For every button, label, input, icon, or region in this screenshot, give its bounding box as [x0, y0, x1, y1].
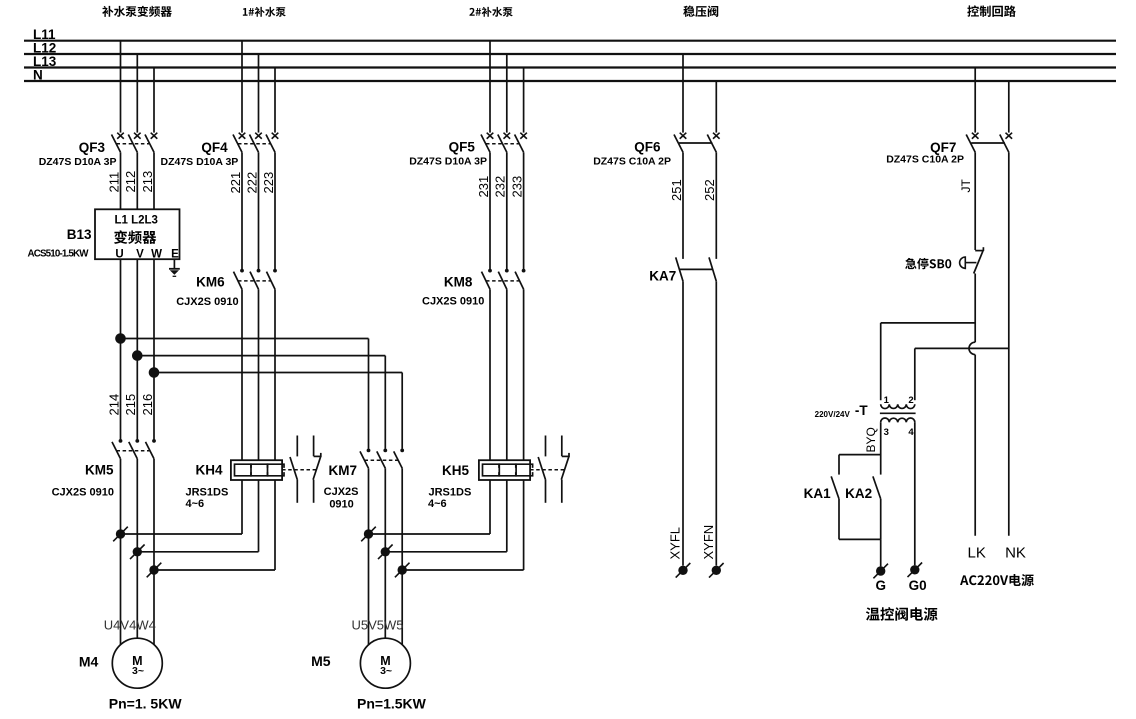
- wire KH4 output 1 to M4 feed: [121, 533, 243, 535]
- svg-text:N: N: [33, 68, 43, 83]
- contactor KM7 pole 3: [394, 449, 404, 469]
- KM7 mechanical link: [365, 459, 399, 461]
- header 稳压阀: [683, 6, 718, 17]
- relay contact KA1: [831, 476, 839, 499]
- wire W5 to motor: [401, 570, 403, 645]
- svg-text:DZ47S D10A 3P: DZ47S D10A 3P: [160, 156, 238, 168]
- svg-text:2: 2: [908, 395, 913, 406]
- header 补水泵变频器: [102, 6, 172, 17]
- wire QF7 pole 2 to NK: [1008, 152, 1010, 535]
- svg-text:233: 233: [509, 176, 524, 198]
- wire SB0 to branch node: [974, 274, 976, 343]
- wire to terminal G: [880, 539, 882, 566]
- svg-text:U4V4W4: U4V4W4: [104, 618, 156, 633]
- svg-text:XYFN: XYFN: [701, 525, 716, 560]
- KM8 mechanical link: [486, 280, 520, 282]
- wire QF3 pole 2 to VFD: [136, 152, 138, 209]
- svg-text:222: 222: [244, 172, 259, 194]
- wire bus tap to QF7 pole 1: [974, 68, 976, 133]
- transformer secondary coil: [881, 418, 915, 422]
- circuit breaker QF5 pole 2: [498, 133, 510, 153]
- QF3 mechanical link: [117, 143, 151, 145]
- power bus N: [24, 80, 1116, 82]
- wire KH5 output 3 down: [523, 480, 525, 570]
- wire KH4 output 3 down: [274, 480, 276, 570]
- svg-text:E: E: [171, 248, 179, 260]
- wire KA2 leg bottom: [880, 499, 882, 540]
- wire KH5 output 1 to M5 feed: [369, 533, 491, 535]
- KH5 heater element 2: [499, 464, 516, 476]
- circuit breaker QF3 pole 3: [145, 133, 157, 153]
- wire KM5 pole 1 to motor node: [120, 459, 122, 534]
- wire QF6 pole 2 to KA7: [715, 152, 717, 259]
- svg-text:220V/24V: 220V/24V: [815, 410, 851, 419]
- wire W branch to KM7: [154, 372, 402, 374]
- svg-text:KM7: KM7: [328, 463, 357, 478]
- circuit breaker QF5 pole 3: [515, 133, 527, 153]
- KH5 aux NC contact: [561, 436, 569, 503]
- wire bus tap to QF3 pole 3: [153, 68, 155, 133]
- thermal relay KH4 box: [231, 460, 282, 480]
- terminal node M5 phase 3: [395, 563, 410, 578]
- wire pin4 to terminal G0: [914, 422, 916, 565]
- wire KH5 output 3 to M5 feed: [402, 569, 523, 571]
- wire U5 to motor: [368, 534, 370, 645]
- wire KM6 pole 3 to KH4: [274, 289, 276, 460]
- wire KM5 pole 3 to motor node: [153, 459, 155, 570]
- wire QF7 pole 1 to SB0: [974, 152, 976, 250]
- wire VFD V output: [136, 259, 138, 439]
- svg-text:U: U: [115, 248, 123, 260]
- wire VFD E to ground: [173, 259, 175, 268]
- terminal G0: [908, 563, 923, 578]
- svg-text:DZ47S C10A 2P: DZ47S C10A 2P: [886, 154, 964, 166]
- wire W4 to motor: [153, 570, 155, 645]
- wire KM7 pole 1 to motor node: [368, 468, 370, 534]
- svg-text:B13: B13: [67, 227, 92, 242]
- svg-text:V: V: [136, 248, 144, 260]
- svg-text:211: 211: [106, 172, 121, 193]
- transformer primary coil: [881, 404, 915, 408]
- svg-text:G0: G0: [909, 578, 927, 593]
- svg-text:221: 221: [228, 172, 243, 194]
- wire KH4 output 1 down: [241, 480, 243, 534]
- wire KH4 output 2 down: [258, 480, 260, 552]
- wire QF4 pole 1 to KM6: [241, 152, 243, 269]
- svg-text:QF3: QF3: [79, 140, 106, 155]
- label AC220V电源: [960, 574, 1034, 586]
- KM5 mechanical link: [117, 450, 151, 452]
- svg-text:U5V5W5: U5V5W5: [352, 618, 404, 633]
- svg-text:KM6: KM6: [196, 275, 225, 290]
- contactor KM7 pole 1: [360, 449, 370, 469]
- svg-text:KA1: KA1: [804, 486, 831, 501]
- circuit breaker QF6 pole 2: [707, 133, 719, 153]
- header 2#补水泵: [469, 7, 512, 17]
- wire KA1 leg top: [838, 455, 840, 475]
- contactor KM6 pole 1: [234, 269, 244, 290]
- motor M5: [360, 638, 410, 688]
- relay contact KA2: [873, 476, 881, 499]
- terminal node M4 phase 3: [147, 563, 162, 578]
- svg-text:Pn=1.5KW: Pn=1.5KW: [357, 696, 427, 712]
- contactor KM8 pole 3: [515, 269, 525, 290]
- svg-text:CJX2S 0910: CJX2S 0910: [52, 487, 114, 499]
- KH4 heater element 3: [268, 464, 285, 476]
- wire QF3 pole 1 to VFD: [120, 152, 122, 209]
- wire KA7 pole 2 to XYFN: [715, 281, 717, 565]
- svg-text:CJX2S 0910: CJX2S 0910: [422, 295, 484, 307]
- wire L branch to transformer pin 1: [881, 323, 976, 400]
- wire bus tap to QF6 pole 2: [715, 81, 717, 133]
- circuit breaker QF4 pole 1: [233, 133, 245, 153]
- emergency stop button SB0: [960, 247, 984, 273]
- wire V branch to KM7: [137, 355, 385, 357]
- wire U4 to motor: [120, 534, 122, 645]
- KH4 aux NC contact: [313, 436, 321, 503]
- svg-text:NK: NK: [1005, 545, 1026, 562]
- svg-text:M4: M4: [79, 654, 99, 670]
- terminal node M5 phase 1: [361, 527, 376, 542]
- VFD box B13: [95, 209, 180, 259]
- wire KM6 pole 1 to KH4: [241, 289, 243, 460]
- wire VFD W output: [153, 259, 155, 439]
- svg-text:214: 214: [106, 394, 121, 416]
- svg-text:JRS1DS: JRS1DS: [429, 486, 472, 498]
- circuit breaker QF7 pole 1: [966, 133, 978, 153]
- wire QF5 pole 3 to KM8: [523, 152, 525, 269]
- svg-text:QF4: QF4: [201, 140, 228, 155]
- KH4 aux NO contact: [290, 436, 297, 503]
- wire bus tap to QF5 pole 1: [489, 41, 491, 133]
- svg-text:216: 216: [140, 394, 155, 416]
- svg-text:3~: 3~: [132, 665, 144, 677]
- QF6 mechanical link: [679, 142, 712, 144]
- power bus L13: [24, 66, 1116, 68]
- power bus L11: [24, 40, 1116, 42]
- wire pin3 down: [880, 422, 882, 474]
- terminal node M4 phase 1: [113, 527, 128, 542]
- wire KM7 pole 3 to motor node: [401, 468, 403, 570]
- wire KH5 output 1 down: [489, 480, 491, 534]
- circuit breaker QF7 pole 2: [1000, 133, 1012, 153]
- wire bus tap to QF5 pole 3: [523, 68, 525, 133]
- wire U branch to KM7: [121, 338, 369, 340]
- QF5 mechanical link: [486, 143, 520, 145]
- svg-text:KM5: KM5: [85, 463, 114, 478]
- svg-text:DZ47S D10A 3P: DZ47S D10A 3P: [409, 155, 487, 167]
- contactor KM8 pole 1: [482, 269, 492, 290]
- wire bus tap to QF4 pole 2: [258, 54, 260, 133]
- svg-text:1: 1: [884, 395, 890, 406]
- node V branch: [132, 350, 143, 361]
- wire branch node to LK: [974, 355, 976, 536]
- wire KM8 pole 2 to KH5: [506, 289, 508, 460]
- wire KH5 output 2 to M5 feed: [385, 551, 507, 553]
- wire KM7 feed 3: [401, 373, 403, 449]
- VFD name 变频器: [114, 230, 156, 244]
- svg-text:KH4: KH4: [195, 463, 222, 478]
- wire KM5 pole 2 to motor node: [136, 459, 138, 552]
- wire N branch to transformer pin 2: [915, 348, 1009, 400]
- power bus L12: [24, 53, 1116, 55]
- svg-text:Pn=1. 5KW: Pn=1. 5KW: [109, 696, 183, 712]
- wire KA7 pole 1 to XYFL: [682, 281, 684, 565]
- svg-text:4~6: 4~6: [428, 498, 447, 510]
- KH5 aux NO contact: [538, 436, 545, 503]
- svg-text:4: 4: [908, 427, 914, 438]
- circuit breaker QF5 pole 1: [481, 133, 493, 153]
- svg-text:KM8: KM8: [444, 275, 473, 290]
- svg-text:KH5: KH5: [442, 463, 469, 478]
- wire QF6 pole 1 to KA7: [682, 152, 684, 259]
- terminal G: [873, 564, 888, 579]
- transformer core: [880, 412, 916, 414]
- svg-text:DZ47S C10A 2P: DZ47S C10A 2P: [593, 155, 671, 167]
- circuit breaker QF6 pole 1: [674, 133, 686, 153]
- header 1#补水泵: [243, 7, 286, 17]
- wire KM8 pole 3 to KH5: [523, 289, 525, 460]
- svg-text:232: 232: [493, 176, 508, 198]
- svg-text:W: W: [151, 248, 162, 260]
- motor M4: [112, 638, 162, 688]
- circuit breaker QF3 pole 1: [112, 133, 124, 153]
- svg-text:CJX2S: CJX2S: [324, 486, 359, 498]
- svg-text:KA7: KA7: [649, 269, 676, 284]
- KH5 trip link: [530, 469, 566, 471]
- wire bus tap to QF7 pole 2: [1008, 81, 1010, 133]
- svg-text:223: 223: [261, 172, 276, 194]
- svg-text:215: 215: [123, 394, 138, 416]
- contactor KM8 pole 2: [498, 269, 508, 290]
- svg-text:XYFL: XYFL: [668, 527, 683, 560]
- wire KM7 pole 2 to motor node: [384, 468, 386, 552]
- contactor KM5 pole 2: [129, 439, 139, 459]
- QF7 mechanical link: [971, 142, 1005, 144]
- svg-text:G: G: [875, 578, 886, 593]
- wire KH4 output 3 to M4 feed: [154, 569, 275, 571]
- wire KH4 output 2 to M4 feed: [137, 551, 258, 553]
- svg-text:LK: LK: [968, 545, 986, 562]
- header 控制回路: [967, 5, 1016, 17]
- wire V5 to motor: [384, 552, 386, 638]
- svg-text:3~: 3~: [380, 665, 392, 677]
- wire QF5 pole 2 to KM8: [506, 152, 508, 269]
- wire QF4 pole 2 to KM6: [258, 152, 260, 269]
- terminal XYFN: [709, 563, 724, 578]
- QF4 mechanical link: [238, 143, 271, 145]
- wire hop over N branch: [969, 342, 975, 354]
- relay contact KA7 pole 1: [676, 257, 683, 281]
- svg-text:251: 251: [669, 179, 684, 201]
- KA7 mechanical link: [679, 268, 712, 270]
- KM6 mechanical link: [238, 280, 271, 282]
- contactor KM6 pole 2: [250, 269, 260, 290]
- thermal relay KH5 box: [479, 460, 530, 480]
- wire QF4 pole 3 to KM6: [274, 152, 276, 269]
- ground symbol: [169, 269, 180, 277]
- wire KA branch top: [839, 454, 881, 456]
- circuit breaker QF3 pole 2: [128, 133, 140, 153]
- svg-text:DZ47S D10A 3P: DZ47S D10A 3P: [39, 156, 117, 168]
- KH5 heater element 1: [483, 464, 500, 476]
- wire KM8 pole 1 to KH5: [489, 289, 491, 460]
- contactor KM5 pole 3: [146, 439, 156, 459]
- wire bus tap to QF4 pole 1: [241, 41, 243, 133]
- svg-text:QF6: QF6: [634, 140, 661, 155]
- svg-text:JT: JT: [959, 179, 973, 193]
- wire VFD U output: [120, 259, 122, 439]
- wire KA branch bottom: [839, 538, 881, 540]
- svg-text:3: 3: [884, 427, 889, 438]
- circuit breaker QF4 pole 3: [266, 133, 278, 153]
- svg-text:CJX2S 0910: CJX2S 0910: [176, 296, 238, 308]
- svg-text:JRS1DS: JRS1DS: [186, 486, 229, 498]
- KH4 trip link: [282, 469, 318, 471]
- wire KH5 output 2 down: [506, 480, 508, 552]
- svg-text:231: 231: [476, 176, 491, 198]
- node W branch: [149, 367, 160, 378]
- circuit breaker QF4 pole 2: [250, 133, 262, 153]
- svg-text:212: 212: [123, 171, 138, 193]
- contactor KM5 pole 1: [112, 439, 122, 459]
- relay contact KA7 pole 2: [709, 257, 716, 281]
- KH4 heater element 2: [251, 464, 268, 476]
- KH5 heater element 3: [516, 464, 533, 476]
- svg-text:L1 L2L3: L1 L2L3: [115, 214, 158, 226]
- svg-text:QF5: QF5: [449, 140, 476, 155]
- svg-text:213: 213: [140, 171, 155, 193]
- svg-text:M5: M5: [311, 653, 331, 669]
- wire KM6 pole 2 to KH4: [258, 289, 260, 460]
- svg-text:KA2: KA2: [845, 486, 872, 501]
- svg-text:0910: 0910: [329, 499, 353, 511]
- wire V4 to motor: [136, 552, 138, 638]
- KH4 heater element 1: [235, 464, 252, 476]
- terminal node M5 phase 2: [378, 545, 393, 560]
- label 温控阀电源: [866, 607, 938, 621]
- svg-text:252: 252: [702, 179, 717, 201]
- wire bus tap to QF4 pole 3: [274, 68, 276, 133]
- wire QF5 pole 1 to KM8: [489, 152, 491, 269]
- contactor KM6 pole 3: [267, 269, 277, 290]
- wire bus tap to QF5 pole 2: [506, 54, 508, 133]
- wire bus tap to QF3 pole 1: [120, 41, 122, 133]
- label 急停SB0: [905, 258, 951, 269]
- wire KM7 feed 1: [368, 339, 370, 449]
- svg-text:4~6: 4~6: [186, 498, 205, 510]
- svg-text:-T: -T: [855, 403, 868, 418]
- wire KA1 leg bottom: [838, 499, 840, 540]
- wire bus tap to QF6 pole 1: [682, 54, 684, 133]
- terminal node M4 phase 2: [130, 545, 145, 560]
- wire KM7 feed 2: [384, 356, 386, 449]
- svg-text:BYQ: BYQ: [864, 427, 878, 452]
- wire QF3 pole 3 to VFD: [153, 152, 155, 209]
- node U branch: [115, 333, 126, 344]
- svg-text:ACS510-1.5KW: ACS510-1.5KW: [28, 249, 90, 260]
- wire bus tap to QF3 pole 2: [136, 54, 138, 133]
- contactor KM7 pole 2: [377, 449, 387, 469]
- terminal XYFL: [676, 563, 691, 578]
